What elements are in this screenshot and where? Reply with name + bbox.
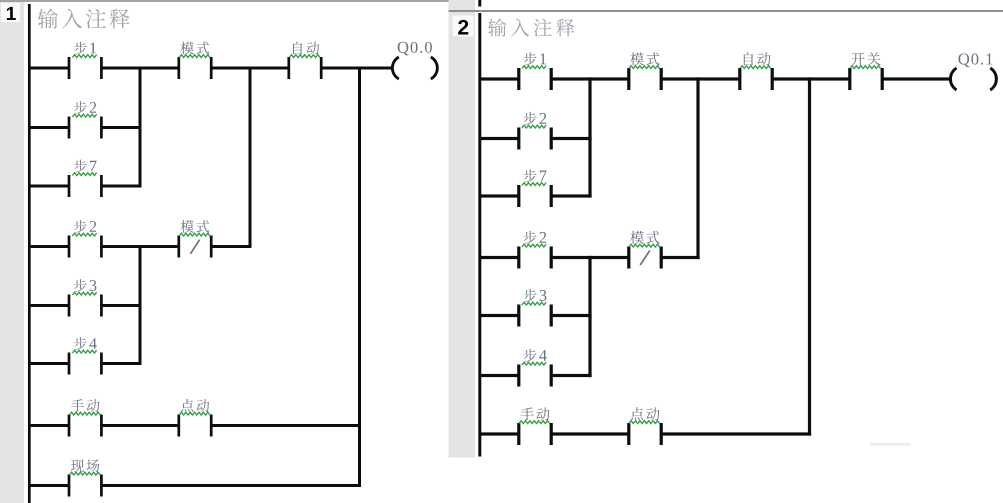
net2 branch wire: rail to 步3: [480, 314, 519, 317]
net1 label Q0.0: [398, 42, 432, 56]
net1 rung wire: rail to 手动: [30, 424, 69, 427]
net2 contact 步2: [517, 128, 520, 150]
net1 label 步2 (rung B): [74, 220, 96, 233]
net2 contact 步3: [517, 305, 520, 327]
net2 rung A wire: 自动 to 开关: [772, 77, 850, 80]
net1 rung wire: rail to 现场: [30, 484, 69, 487]
net1 branch wire: rail to 步2: [30, 126, 69, 129]
net2 label 步7: [524, 169, 547, 182]
net2 junction vertical before 开关 (rung A to 手动 rung): [808, 77, 811, 435]
net1 label 模式 (rung B): [181, 220, 210, 233]
net2 contact 步1: [517, 68, 520, 90]
net2 rung wire: rail to 手动: [480, 432, 519, 435]
net2 branch wire: rail to 步7: [480, 194, 519, 197]
net2 contact 步4: [517, 365, 520, 387]
net1 NC slash: [190, 240, 199, 254]
net1 rung wire: 现场 to junction: [101, 484, 361, 487]
net2 label 步2: [524, 112, 547, 125]
net1 rung A wire: 模式 to 自动: [211, 67, 289, 70]
net1 contact 步2 (rung B): [68, 236, 71, 258]
net1 branch wire: 步7 to junction: [101, 185, 141, 188]
net2 label 模式 (rung B): [630, 231, 659, 244]
net2 junction vertical after 步2 (rung B to 步4): [588, 256, 591, 377]
net2 rung wire: 手动 to 点动: [551, 432, 629, 435]
net2 label 步4: [524, 349, 547, 362]
net1 contact 步2: [68, 117, 71, 139]
net2 rung B wire: 步2 to 模式/: [551, 256, 629, 259]
network 2 power rail: [478, 13, 481, 457]
net2 coil Q0.1: [950, 68, 956, 90]
net1 rung B wire: 模式/ to junction up: [211, 245, 251, 248]
net2 contact 手动: [517, 423, 520, 445]
net2 label 步3: [524, 289, 547, 302]
net1 contact 步7: [68, 175, 71, 197]
net1 label 步7: [74, 160, 97, 173]
net2 NC slash: [640, 251, 650, 266]
net2 contact 点动: [627, 423, 630, 445]
network 2 gray margin: [449, 0, 476, 458]
network 1 number: [7, 7, 16, 20]
net1 rung A wire: 步1 to 模式: [101, 67, 178, 70]
net2 label 步1: [524, 52, 547, 65]
net1 rung wire: 手动 to 点动: [101, 424, 178, 427]
net2 rung A wire: 步1 to 模式: [551, 77, 629, 80]
net1 contact 步3: [68, 295, 71, 317]
net1 coil Q0.0: [392, 57, 399, 79]
net1 junction vertical before coil (rung A to 现场): [358, 67, 361, 488]
network 2 number box: [453, 16, 474, 37]
network 2 separator line: [449, 10, 1003, 12]
net1 contact 点动: [177, 415, 180, 437]
network 1 power rail: [28, 4, 31, 503]
net2 rung B wire: 模式/ to junction up: [661, 256, 699, 259]
net1 rung A wire: 自动 to coil: [321, 67, 393, 70]
net1 contact 现场: [68, 475, 71, 497]
network 2 number: [458, 20, 468, 35]
net2 contact 模式: [627, 68, 630, 90]
net1 branch wire: 步3 to junction: [101, 304, 141, 307]
net2 contact 步2 (rung B): [517, 247, 520, 269]
net1 contact 模式: [177, 57, 180, 79]
net1 contact 步1: [68, 57, 71, 79]
net2 branch wire: rail to 步4: [480, 374, 519, 377]
net2 contact 自动: [738, 68, 741, 90]
net1 contact 自动: [287, 57, 290, 79]
net1 junction vertical after 步1: [139, 67, 142, 188]
net1 junction vertical after 模式 (rung A to rung B): [249, 67, 252, 249]
net1 rung B wire: rail to 步2: [30, 245, 69, 248]
net1 label 手动: [71, 399, 100, 412]
net1 rung B wire: 步2 to 模式/: [101, 245, 178, 248]
network 1 gray margin: [0, 2, 24, 503]
net2 rung A wire: 模式 to 自动: [661, 77, 740, 80]
net2 rung A wire: rail to 步1: [480, 77, 519, 80]
net2 label 手动: [520, 407, 549, 420]
net1 label 步3: [74, 279, 96, 292]
net2 rung wire: 点动 to junction: [661, 432, 811, 435]
net2 label 步2 (rung B): [524, 231, 547, 244]
net2 label 模式: [630, 52, 659, 65]
network 1 comment header 输入注释: [38, 9, 130, 29]
net1 label 自动: [293, 42, 319, 55]
net1 rung wire: 点动 to junction: [211, 424, 361, 427]
network 1 top separator line: [0, 0, 449, 2]
net2 contact 开关: [848, 68, 851, 90]
network 1 number box: [1, 3, 20, 22]
net2 NC contact 模式/: [627, 247, 630, 269]
net1 label 步4: [74, 337, 97, 350]
net1 rung A wire: rail to 步1: [30, 67, 69, 70]
faint artifact line: [870, 443, 912, 446]
net1 contact 步4: [68, 353, 71, 375]
net1 branch wire: rail to 步3: [30, 304, 69, 307]
net2 label 开关: [851, 52, 880, 65]
net1 label 步2: [74, 101, 96, 114]
net1 label 点动: [181, 399, 209, 412]
net1 NC contact 模式/: [177, 236, 180, 258]
net2 contact 步7: [517, 185, 520, 207]
net1 branch wire: rail to 步7: [30, 185, 69, 188]
net1 label 模式: [181, 42, 210, 55]
net2 label Q0.1: [959, 53, 993, 67]
net2 label 自动: [744, 52, 771, 65]
net1 contact 手动: [68, 415, 71, 437]
network 2 rail stub above separator: [478, 0, 481, 7]
net2 branch wire: 步4 to junction: [551, 374, 591, 377]
net1 junction vertical after 步2 (rung B to 步4): [139, 245, 142, 365]
net1 branch wire: 步2 to junction: [101, 126, 141, 129]
net2 branch wire: rail to 步2: [480, 137, 519, 140]
net2 rung B wire: rail to 步2: [480, 256, 519, 259]
net1 label 步1: [74, 42, 96, 55]
network 2 comment header 输入注释: [488, 18, 574, 36]
net2 label 点动: [631, 407, 660, 420]
net2 branch wire: 步7 to junction: [551, 194, 591, 197]
net2 branch wire: 步3 to junction: [551, 314, 591, 317]
net1 label 现场: [71, 459, 100, 472]
net1 branch wire: rail to 步4: [30, 362, 69, 365]
net2 junction vertical after 模式 (rung A to rung B): [696, 77, 699, 259]
net2 branch wire: 步2 to junction: [551, 137, 591, 140]
net1 branch wire: 步4 to junction: [101, 362, 141, 365]
net2 junction vertical after 步1: [588, 77, 591, 197]
net2 rung A wire: 开关 to coil: [882, 77, 950, 80]
